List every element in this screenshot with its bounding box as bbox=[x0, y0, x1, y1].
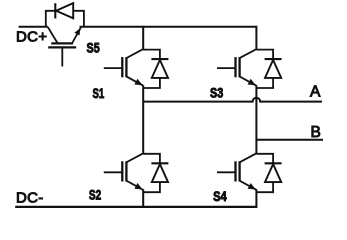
transistor S1 (IGBT) bbox=[104, 49, 143, 86]
svg-text:S1: S1 bbox=[93, 85, 105, 101]
wire right leg middle (S3 emitter to S4 collector, node B tap) bbox=[255, 85, 257, 154]
svg-text:S5: S5 bbox=[87, 39, 100, 55]
svg-text:A: A bbox=[310, 83, 321, 100]
wire right leg top (DC+ to S3 collector) bbox=[255, 26, 257, 50]
wire left leg middle (S1 emitter to S2 collector, node A tap) bbox=[142, 85, 144, 154]
svg-text:DC+: DC+ bbox=[16, 28, 47, 45]
wire DC+ rail left segment bbox=[19, 26, 48, 28]
wire left leg bottom (S2 emitter to DC- rail) bbox=[142, 189, 144, 207]
wire DC- rail bbox=[15, 206, 257, 208]
svg-text:S3: S3 bbox=[210, 85, 223, 101]
wire right leg bottom (S4 emitter to DC- rail) bbox=[255, 189, 257, 207]
wire left leg top (DC+ to S1 collector) bbox=[142, 26, 144, 50]
transistor S2 (IGBT) bbox=[104, 153, 143, 190]
svg-text:S2: S2 bbox=[89, 187, 101, 203]
wire output B (from right leg midpoint) bbox=[256, 139, 323, 141]
freewheel diode of S2 bbox=[143, 154, 168, 192]
transistor S3 (IGBT) bbox=[217, 49, 256, 86]
transistor S4 (IGBT) bbox=[217, 153, 256, 190]
wire DC+ rail right segment bbox=[80, 26, 257, 28]
freewheel diode of S3 bbox=[256, 50, 281, 88]
transistor S5 (series IGBT, rotated) bbox=[48, 27, 81, 67]
freewheel diode of S1 bbox=[143, 50, 168, 88]
antiparallel diode of S5 bbox=[46, 3, 84, 27]
svg-text:DC-: DC- bbox=[16, 190, 44, 207]
svg-text:B: B bbox=[311, 124, 321, 141]
svg-text:S4: S4 bbox=[213, 188, 227, 204]
freewheel diode of S4 bbox=[256, 154, 281, 192]
wire output A (from left leg midpoint, hops over right leg) bbox=[143, 98, 322, 102]
